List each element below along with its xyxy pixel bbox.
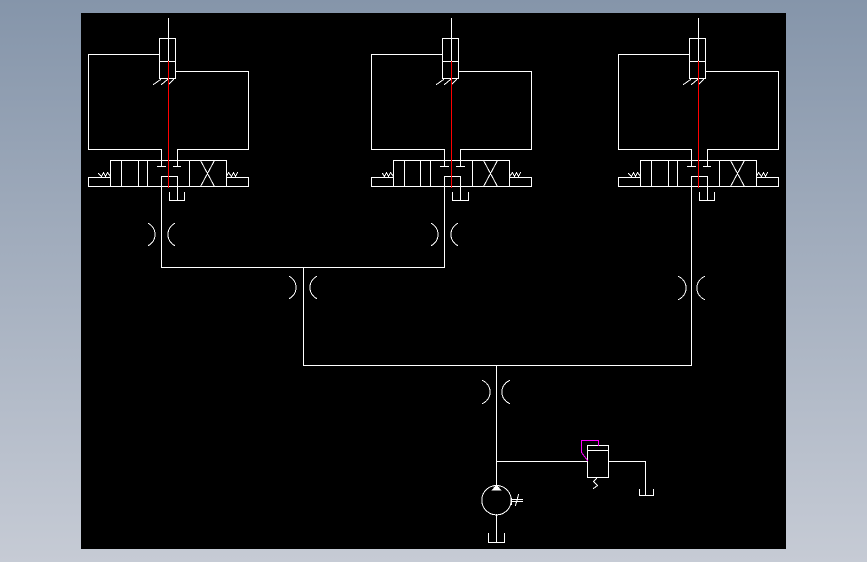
valve V1 centre bypass box xyxy=(162,177,178,187)
CAD drawing canvas (black model space) xyxy=(81,13,786,549)
pump P1 drive shaft xyxy=(512,495,523,506)
valve V3 crossed-flow X xyxy=(731,161,745,187)
relief valve RV1 body xyxy=(588,446,609,478)
cylinder C1 mount hatch 3 xyxy=(169,80,174,85)
cylinder C3 feed line xyxy=(698,19,700,39)
relief valve RV1 spring xyxy=(594,479,598,489)
valve V2 right spring xyxy=(510,173,521,177)
valve V1 divider a xyxy=(121,161,123,187)
valve V3 right end box xyxy=(757,178,779,187)
pump P1 suction line xyxy=(496,515,498,543)
hose connector arcs on P line 3 xyxy=(679,277,687,300)
valve V3 port B blocked tee xyxy=(704,161,711,167)
valve V3 port A blocked tee xyxy=(688,161,696,167)
cylinder C2 body xyxy=(443,39,459,79)
valve V2 port A blocked tee xyxy=(441,161,449,167)
press platen right half (cyl 3) xyxy=(707,72,779,161)
press platen left half (cyl 3) xyxy=(619,55,692,161)
valve V1 left spring xyxy=(99,173,111,177)
pressure line from valve V2 xyxy=(444,187,446,268)
directional valve V2 body xyxy=(394,161,510,187)
press platen right half (cyl 1) xyxy=(177,72,249,161)
cylinder C3 piston divider xyxy=(690,61,706,63)
cylinder C2 piston divider xyxy=(443,61,459,63)
valve V1 tank return line xyxy=(177,187,179,201)
press platen right half (cyl 2) xyxy=(459,72,532,161)
piston rod (red) cylinder C1 xyxy=(168,62,170,188)
valve V3 divider d xyxy=(719,161,721,187)
cylinder C3 mount hatch 1 xyxy=(684,80,691,85)
cylinder C3 mount hatch 3 xyxy=(699,80,704,85)
cylinder C2 mount hatch 1 xyxy=(437,80,444,85)
valve V3 divider c xyxy=(677,161,679,187)
cylinder C3 body xyxy=(690,39,706,79)
cylinder C1 mount hatch 1 xyxy=(154,80,161,85)
valve V3 right spring xyxy=(757,173,768,177)
cylinder C2 mount hatch 2 xyxy=(445,80,451,85)
valve V2 divider a xyxy=(404,161,406,187)
manifold line joining V1+V2 xyxy=(162,267,445,269)
valve V2 divider c xyxy=(430,161,432,187)
cylinder C2 feed line xyxy=(451,19,453,39)
valve V1 divider c xyxy=(147,161,149,187)
directional valve V3 body xyxy=(641,161,757,187)
pressure line from valve V1 xyxy=(161,187,163,268)
valve V3 divider a xyxy=(651,161,653,187)
cylinder C1 body xyxy=(160,39,176,79)
pump riser xyxy=(496,366,498,486)
valve V1 divider b xyxy=(138,161,140,187)
press platen left half (cyl 2) xyxy=(372,55,445,161)
valve V1 left end box xyxy=(89,178,111,187)
cylinder C3 mount hatch 2 xyxy=(692,80,698,85)
valve V1 right end box xyxy=(227,178,249,187)
tank symbol T3 xyxy=(700,193,715,201)
tank symbol T1 xyxy=(170,193,185,201)
valve V2 centre bypass box xyxy=(445,177,461,187)
cylinder C3 rod upper xyxy=(698,39,700,62)
manifold line 2 joining riser+V3 xyxy=(304,365,692,367)
valve V2 right end box xyxy=(510,178,532,187)
directional valve V1 body xyxy=(111,161,227,187)
valve V2 divider d xyxy=(472,161,474,187)
hose connector arcs on riser xyxy=(290,277,297,299)
valve V3 left spring xyxy=(629,173,641,177)
valve V2 tank return line xyxy=(460,187,462,201)
relief valve RV1 top divider xyxy=(588,450,609,452)
cylinder C1 piston divider xyxy=(160,61,176,63)
valve V1 crossed-flow X xyxy=(201,161,215,187)
valve V1 right spring xyxy=(227,173,238,177)
valve V3 tank return line xyxy=(707,187,709,201)
valve V2 port B blocked tee xyxy=(457,161,465,167)
relief valve tank symbol xyxy=(640,490,654,496)
valve V2 divider b xyxy=(420,161,422,187)
tank symbol T2 xyxy=(453,193,469,201)
valve V2 left spring xyxy=(383,173,394,177)
cylinder C1 mount hatch 2 xyxy=(162,80,168,85)
relief valve pilot line (magenta) xyxy=(582,441,599,461)
valve V1 port B blocked tee xyxy=(174,161,181,167)
riser from manifold 1 xyxy=(303,268,305,366)
hose connector arcs on P line 2 xyxy=(432,224,439,246)
valve V3 left end box xyxy=(619,178,641,187)
hose connector arcs on pump riser xyxy=(483,381,491,404)
cylinder C1 rod upper xyxy=(168,39,170,62)
piston rod (red) cylinder C2 xyxy=(451,62,453,188)
valve V2 crossed-flow X xyxy=(484,161,498,187)
valve V2 left end box xyxy=(372,178,394,187)
cylinder C2 mount hatch 3 xyxy=(452,80,457,85)
valve V3 divider b xyxy=(668,161,670,187)
relief valve outlet line xyxy=(609,462,646,496)
cylinder C2 rod upper xyxy=(451,39,453,62)
valve V3 centre bypass box xyxy=(692,177,708,187)
hose connector arcs on P line 1 xyxy=(149,224,156,246)
valve V1 divider d xyxy=(189,161,191,187)
press platen left half (cyl 1) xyxy=(89,55,162,161)
valve V1 port A blocked tee xyxy=(158,161,166,167)
cylinder C1 feed line xyxy=(168,19,170,39)
pump tank symbol xyxy=(489,534,505,543)
pressure line from valve V3 xyxy=(691,187,693,366)
piston rod (red) cylinder C3 xyxy=(698,62,700,188)
pump P1 outlet triangle xyxy=(492,485,501,490)
pump P1 circle xyxy=(482,486,511,515)
branch line to relief valve xyxy=(497,461,588,463)
